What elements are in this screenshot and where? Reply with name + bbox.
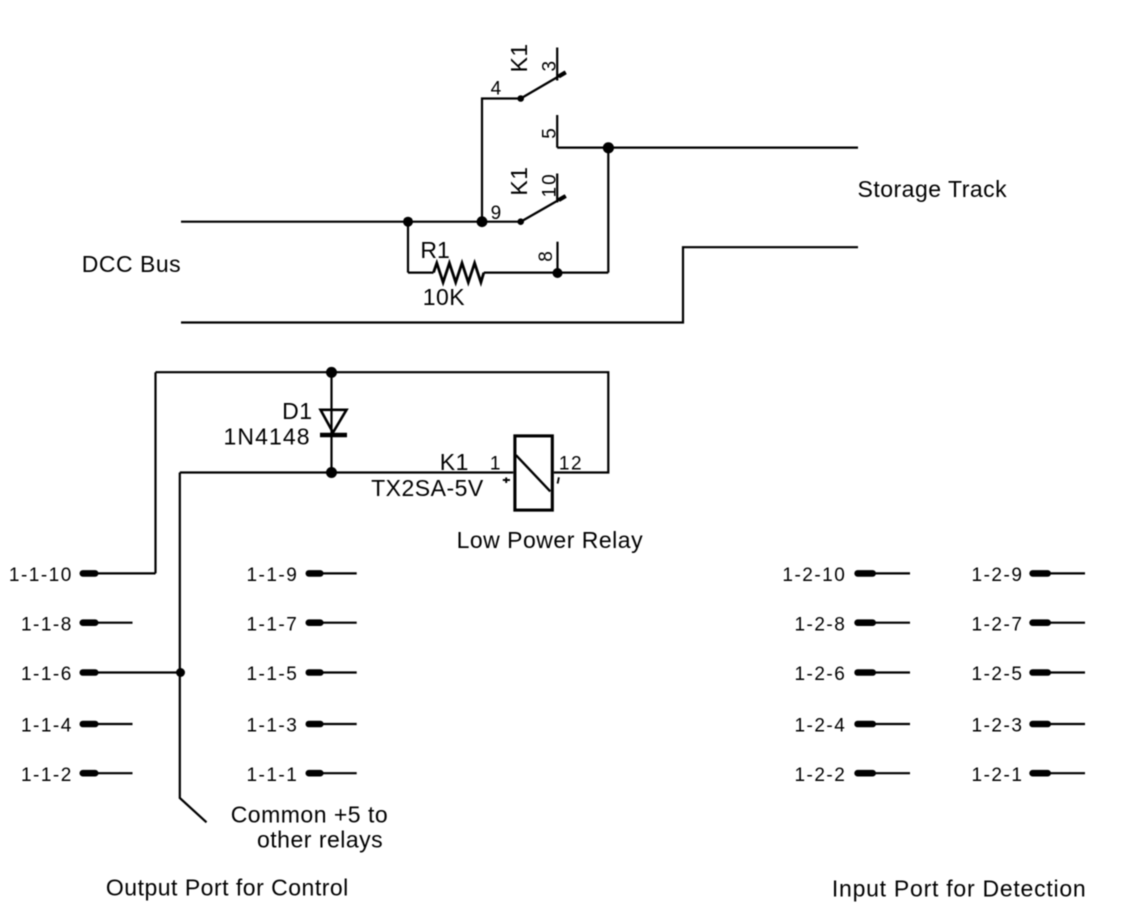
- svg-text:1-1-5: 1-1-5: [246, 664, 298, 685]
- svg-text:1-2-9: 1-2-9: [972, 565, 1024, 586]
- svg-text:10: 10: [540, 172, 561, 197]
- svg-text:8: 8: [536, 250, 557, 261]
- svg-text:1-1-4: 1-1-4: [21, 716, 73, 737]
- svg-text:10K: 10K: [423, 284, 466, 310]
- svg-text:DCC Bus: DCC Bus: [82, 251, 181, 277]
- svg-text:Input Port for Detection: Input Port for Detection: [832, 876, 1087, 902]
- svg-text:1-2-8: 1-2-8: [794, 614, 846, 635]
- svg-text:R1: R1: [420, 237, 449, 263]
- svg-text:1-2-4: 1-2-4: [794, 716, 846, 737]
- svg-text:3: 3: [539, 60, 560, 71]
- svg-text:9: 9: [491, 203, 502, 224]
- svg-text:Low Power Relay: Low Power Relay: [457, 527, 643, 553]
- svg-text:1-2-3: 1-2-3: [972, 716, 1024, 737]
- svg-text:Storage Track: Storage Track: [858, 176, 1008, 202]
- svg-text:Output Port for Control: Output Port for Control: [106, 874, 349, 900]
- svg-text:4: 4: [491, 78, 502, 99]
- svg-text:1-2-10: 1-2-10: [782, 565, 846, 586]
- svg-text:D1: D1: [282, 398, 312, 424]
- svg-text:K1: K1: [506, 166, 532, 195]
- svg-text:12: 12: [559, 453, 583, 474]
- svg-text:1-2-2: 1-2-2: [794, 765, 846, 786]
- svg-text:1-1-2: 1-1-2: [21, 765, 73, 786]
- svg-text:K1: K1: [506, 43, 532, 72]
- svg-text:1-2-5: 1-2-5: [972, 664, 1024, 685]
- svg-text:1-1-10: 1-1-10: [9, 565, 73, 586]
- svg-text:1-2-6: 1-2-6: [794, 664, 846, 685]
- svg-text:1-1-3: 1-1-3: [246, 716, 298, 737]
- svg-text:K1: K1: [440, 449, 469, 475]
- svg-text:5: 5: [539, 127, 560, 138]
- svg-text:Common +5 to: Common +5 to: [231, 802, 389, 828]
- svg-text:1-2-7: 1-2-7: [972, 614, 1024, 635]
- svg-text:1-1-9: 1-1-9: [246, 565, 298, 586]
- svg-text:1-1-6: 1-1-6: [21, 664, 73, 685]
- svg-text:1N4148: 1N4148: [224, 424, 311, 450]
- svg-text:other relays: other relays: [257, 827, 383, 853]
- svg-text:1-1-1: 1-1-1: [246, 765, 298, 786]
- svg-text:1: 1: [490, 453, 501, 474]
- svg-text:1-2-1: 1-2-1: [972, 765, 1024, 786]
- svg-text:1-1-8: 1-1-8: [21, 614, 73, 635]
- svg-text:TX2SA-5V: TX2SA-5V: [371, 475, 484, 501]
- svg-text:1-1-7: 1-1-7: [246, 614, 298, 635]
